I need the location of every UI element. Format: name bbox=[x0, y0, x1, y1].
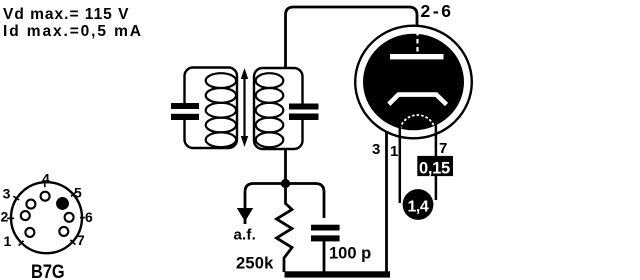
svg-text:1,4: 1,4 bbox=[408, 199, 429, 216]
svg-text:B7G: B7G bbox=[31, 261, 65, 280]
svg-text:7: 7 bbox=[77, 232, 85, 248]
svg-text:3: 3 bbox=[3, 186, 11, 202]
svg-text:3: 3 bbox=[372, 141, 380, 158]
svg-text:2: 2 bbox=[1, 209, 9, 225]
svg-text:a.f.: a.f. bbox=[234, 227, 256, 244]
svg-text:7: 7 bbox=[439, 140, 447, 157]
svg-text:1: 1 bbox=[390, 143, 398, 160]
svg-text:2-6: 2-6 bbox=[421, 1, 454, 21]
svg-text:6: 6 bbox=[85, 209, 93, 225]
svg-text:5: 5 bbox=[74, 185, 82, 201]
svg-text:250k: 250k bbox=[236, 255, 274, 273]
svg-text:1: 1 bbox=[4, 233, 12, 249]
svg-text:Vd max.= 115 V: Vd max.= 115 V bbox=[3, 6, 129, 23]
svg-text:4: 4 bbox=[42, 171, 50, 187]
svg-text:0,15: 0,15 bbox=[419, 159, 450, 177]
svg-text:100 p: 100 p bbox=[329, 245, 371, 263]
svg-text:Id max.=0,5 mA: Id max.=0,5 mA bbox=[3, 23, 143, 40]
